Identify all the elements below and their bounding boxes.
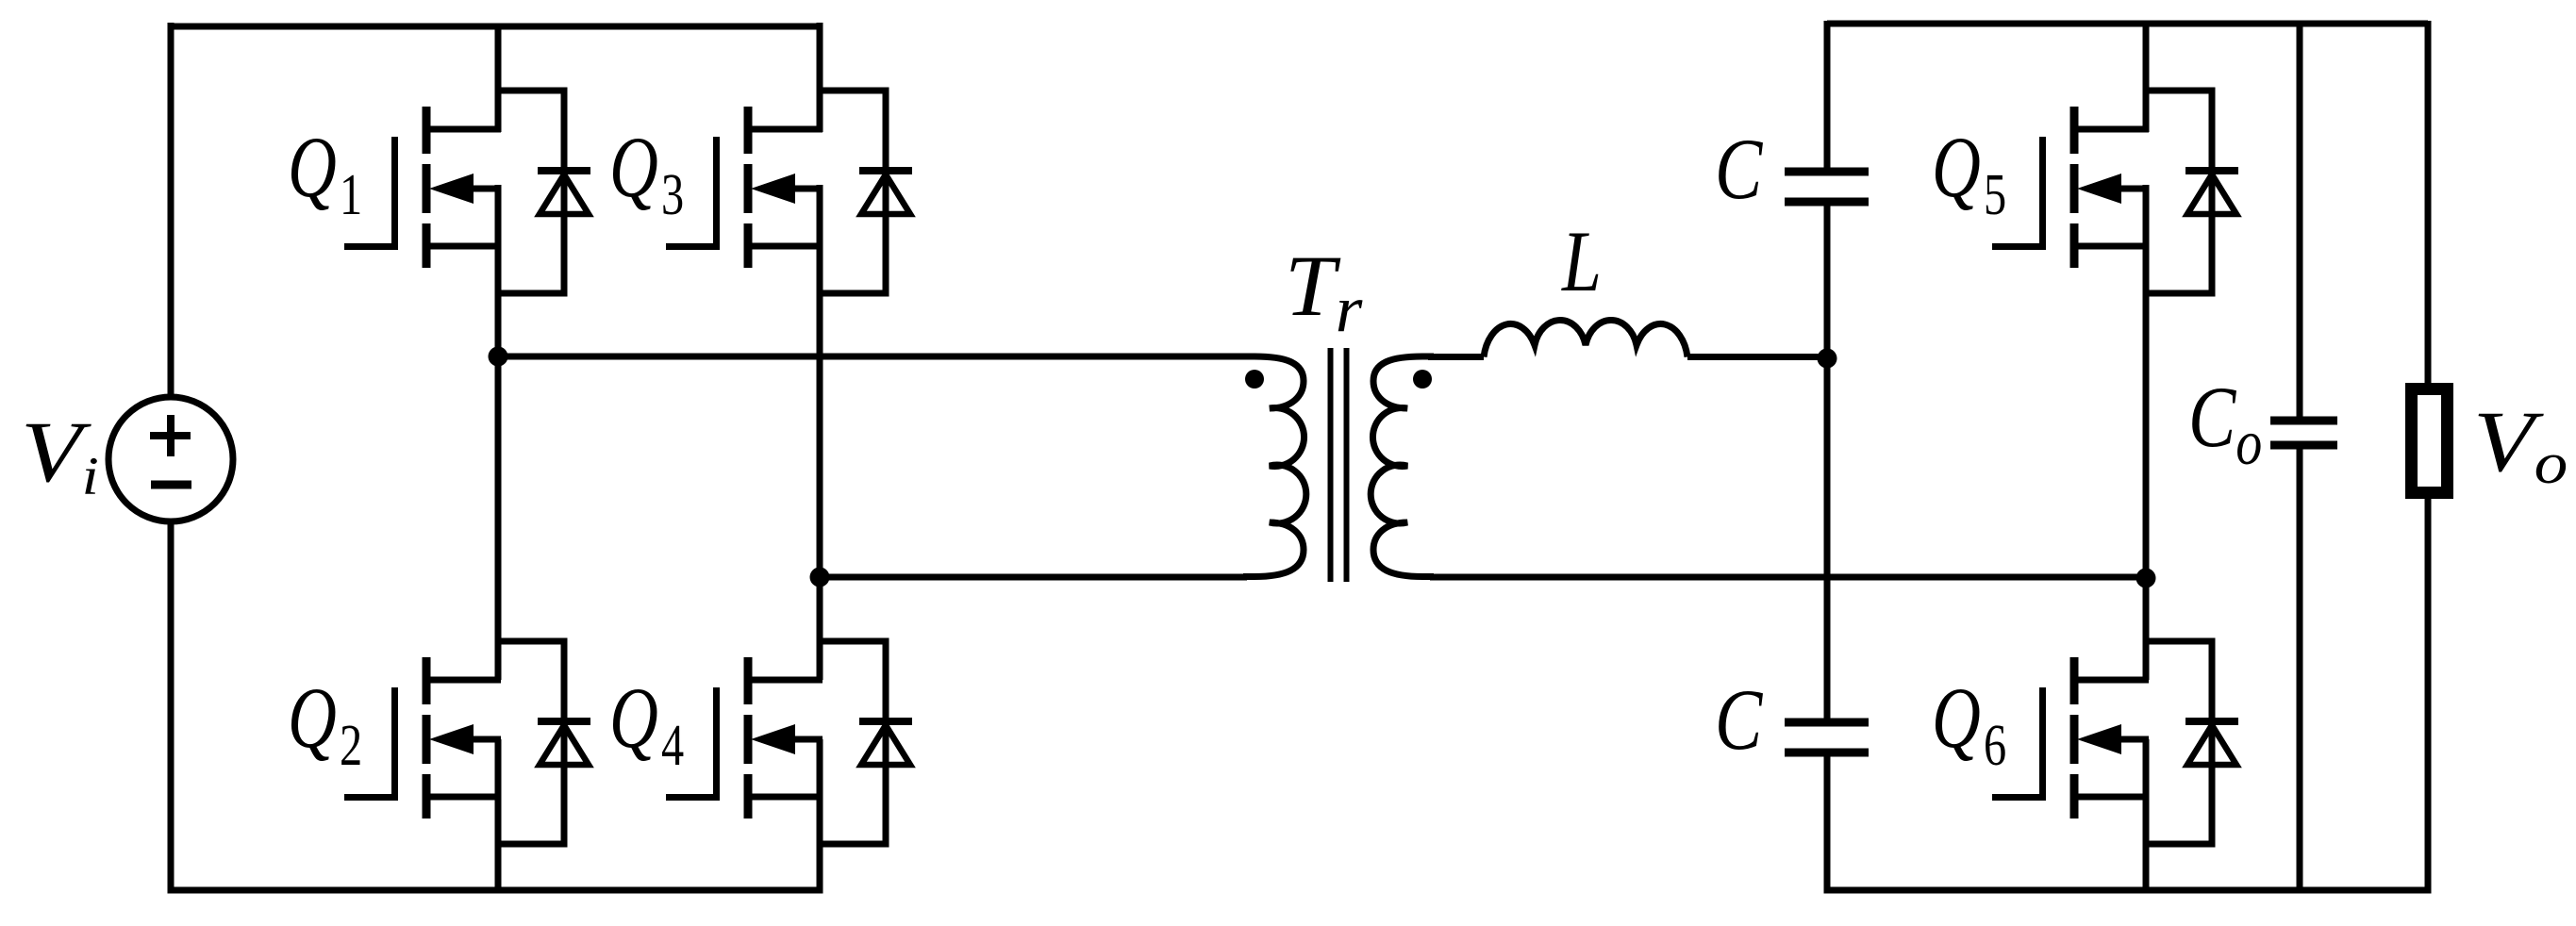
capacitor C lower [1785, 722, 1869, 752]
wire secondary top to inductor [1428, 354, 1484, 360]
transistor Q5 [1992, 91, 2238, 293]
transformer core [1331, 348, 1347, 582]
wire C-leg middle [1824, 206, 1831, 719]
svg-text:C: C [1715, 672, 1763, 769]
capacitor Co [2270, 421, 2337, 445]
wire Vo leg lower [2425, 499, 2432, 894]
wire node B to transformer primary bottom [820, 574, 1247, 581]
inductor L [1484, 321, 1687, 357]
wire secondary bottom to node D [1430, 574, 2146, 581]
wire Q5/Q6 bridge leg [2143, 185, 2150, 680]
node C junction [1818, 349, 1837, 369]
wire left rail lower [168, 521, 175, 894]
wire left rail upper [168, 23, 175, 397]
transformer primary dot [1245, 370, 1264, 389]
transformer Tr primary winding [1243, 356, 1306, 577]
wire Q2 source leg [495, 739, 502, 890]
transformer secondary dot [1413, 370, 1432, 389]
wire Q4 source leg [817, 739, 823, 894]
voltage source Vi [108, 397, 233, 521]
wire Q3 drain leg [817, 23, 823, 132]
load resistor Vo [2412, 389, 2448, 493]
transistor Q6 [1992, 641, 2238, 844]
wire Q5 drain leg [2143, 24, 2150, 132]
wire bottom-right rail [1827, 887, 2428, 894]
wire Co leg lower [2297, 449, 2303, 890]
transistor Q3 [666, 91, 912, 293]
svg-text:L: L [1561, 214, 1602, 310]
wire Q1 drain leg [495, 26, 502, 132]
wire bottom-left rail [171, 887, 820, 894]
wire C-leg upper [1824, 21, 1831, 168]
transistor Q4 [666, 641, 912, 844]
wire top-left rail [171, 24, 820, 30]
wire Vo leg upper [2425, 21, 2432, 383]
wire Co leg upper [2297, 21, 2303, 417]
wire node A to transformer primary top [498, 354, 1247, 360]
node A junction [489, 347, 508, 367]
wire top-right rail [1827, 21, 2428, 27]
transistor Q1 [344, 91, 590, 293]
transformer Tr secondary winding [1371, 356, 1434, 577]
wire Q1/Q2 bridge leg [495, 185, 502, 680]
svg-text:C: C [1715, 122, 1763, 218]
wire inductor to node C [1687, 354, 1827, 360]
wire C-leg lower [1824, 756, 1831, 894]
capacitor C upper [1785, 172, 1869, 202]
wire Q6 source leg [2143, 739, 2150, 890]
node D junction [2136, 569, 2156, 588]
transistor Q2 [344, 641, 590, 844]
node B junction [810, 568, 830, 587]
wire Q3/Q4 bridge leg [817, 185, 823, 680]
